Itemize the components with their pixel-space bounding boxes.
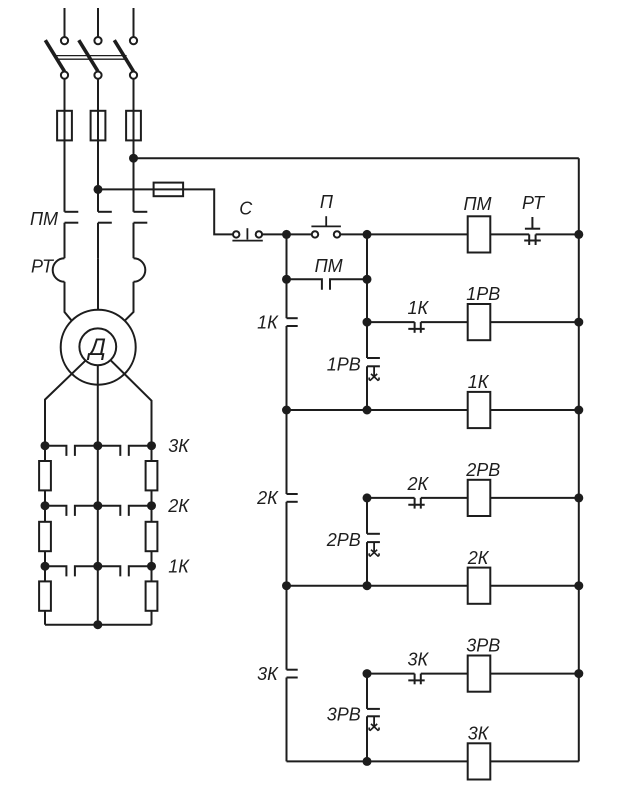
contact 3К left shorting	[45, 446, 66, 456]
thermal element RT L3	[134, 258, 146, 282]
contact 2К accelerating break	[287, 493, 298, 495]
node L2 control tap	[94, 185, 103, 194]
svg-text:3К: 3К	[468, 724, 490, 744]
wire A to P	[287, 233, 312, 235]
node resistor row 3К left	[41, 441, 50, 450]
wire right column segments	[151, 446, 153, 461]
svg-text:1К: 1К	[468, 372, 490, 392]
wire rung2 left	[367, 321, 415, 323]
knife switch terminal bottom L2	[94, 72, 101, 79]
svg-text:1К: 1К	[407, 298, 429, 318]
node middle branch rung2	[363, 318, 372, 327]
pushbutton P actuator	[325, 216, 327, 226]
knife switch linkage bar	[55, 55, 126, 57]
wire middle branch above 1РВ contact	[366, 322, 368, 358]
contact 1К right shorting	[98, 566, 121, 576]
node bus main rung	[574, 230, 583, 239]
node A	[282, 230, 291, 239]
wire left branch above 1К	[286, 279, 288, 318]
pushbutton C bridge	[232, 240, 262, 242]
knife switch blade L2	[79, 40, 98, 71]
node resistor row 2К right	[147, 501, 156, 510]
node resistor row 3К middle	[93, 441, 102, 450]
fuse control circuit	[154, 183, 184, 197]
wire rung7 left	[287, 760, 468, 762]
motor D inner circle	[79, 328, 116, 365]
node bus rung5	[574, 581, 583, 590]
contact 2РВ timed	[367, 533, 380, 535]
wire A down to self-hold	[286, 234, 288, 279]
svg-text:ПМ: ПМ	[30, 209, 58, 229]
wire middle branch below 2РВ contact	[366, 542, 368, 586]
pushbutton C terminal left	[233, 231, 239, 237]
svg-text:2К: 2К	[406, 474, 429, 494]
wire motor rotor lead middle	[97, 365, 99, 446]
wire P to node B	[340, 233, 367, 235]
wire middle column	[97, 446, 99, 625]
contact 2К closing break	[414, 498, 416, 509]
node left branch rung3	[282, 406, 291, 415]
svg-text:П: П	[320, 192, 334, 212]
knife switch terminal top L2	[94, 37, 101, 44]
contactor PM main contact L2	[98, 211, 112, 213]
wire through fuse F2	[97, 111, 99, 141]
node resistor row 3К right	[147, 441, 156, 450]
svg-text:1К: 1К	[168, 557, 190, 577]
contact RT release mark	[531, 217, 533, 229]
svg-text:1К: 1К	[257, 312, 279, 332]
coil 2РВ	[468, 480, 491, 516]
node bus rung3	[574, 406, 583, 415]
node self-hold right	[363, 275, 372, 284]
wire rung2 mid	[421, 321, 468, 323]
wire middle branch below 3РВ contact	[366, 716, 368, 761]
node B	[363, 230, 372, 239]
svg-text:3РВ: 3РВ	[466, 636, 500, 656]
pushbutton C terminal right	[256, 231, 262, 237]
node resistor row 1К left	[41, 562, 50, 571]
wire middle branch above 2РВ contact	[366, 498, 368, 534]
wire rung4 left	[367, 497, 415, 499]
svg-text:3К: 3К	[168, 436, 190, 456]
node bus rung4	[574, 493, 583, 502]
wire RT to bus	[536, 233, 579, 235]
wire L2 tap to control fuse	[98, 189, 233, 234]
wire middle branch below 1РВ contact	[366, 366, 368, 410]
contact 3К accelerating break	[287, 669, 298, 671]
resistor R6 right	[146, 581, 158, 610]
resistor R3 left	[39, 581, 51, 610]
wire L1 switch to fuse	[64, 79, 66, 111]
contactor PM main contact L3	[134, 211, 148, 213]
node middle branch rung5	[363, 581, 372, 590]
wire L1 heater to motor	[65, 282, 72, 321]
contact 1К accelerating break	[287, 317, 298, 319]
wire rung4 mid	[421, 497, 468, 499]
wire left branch below 1К	[286, 326, 288, 410]
resistor R5 right	[146, 522, 158, 551]
node middle branch rung6	[363, 669, 372, 678]
wire L3 fuse to PM contact	[133, 140, 135, 211]
node middle branch rung3	[363, 406, 372, 415]
wire rung6 left	[367, 673, 415, 675]
node resistor row 1К right	[147, 562, 156, 571]
contact 3К closing break	[414, 674, 416, 685]
fuse F3	[126, 111, 141, 141]
time-delay arrow 2РВ	[373, 542, 375, 552]
svg-text:2РВ: 2РВ	[326, 530, 361, 550]
wire L1 below PM contact	[64, 223, 66, 259]
coil PM	[468, 216, 491, 252]
wire rung6 mid	[421, 673, 468, 675]
wire rung2 right	[490, 321, 579, 323]
wire motor rotor lead right	[110, 360, 151, 446]
wire rung5	[287, 585, 468, 587]
knife switch terminal top L3	[130, 37, 137, 44]
contactor PM main contact L1	[65, 211, 79, 213]
wire through fuse F1	[64, 111, 66, 141]
wire PM coil to RT contact	[490, 233, 529, 235]
node left branch rung5	[282, 581, 291, 590]
contact RT thermal break	[528, 234, 530, 245]
wire rung7 right	[490, 760, 579, 762]
wire top feed to control bus	[134, 157, 579, 159]
contact 2К left shorting	[45, 506, 66, 516]
wire rung6 right	[490, 673, 579, 675]
wire left branch below 2К	[286, 502, 288, 586]
wire L2 below PM contact	[97, 223, 99, 259]
wire L3 heater to motor	[125, 282, 134, 321]
resistor R1 left	[39, 461, 51, 490]
fuse F1	[57, 111, 72, 141]
wire rung4 right	[490, 497, 579, 499]
svg-text:РТ: РТ	[522, 193, 546, 213]
svg-text:3К: 3К	[407, 650, 429, 670]
coil 3К	[468, 743, 491, 779]
contact PM holding	[287, 279, 322, 289]
contact 3К right shorting	[98, 446, 121, 456]
svg-text:1РВ: 1РВ	[327, 354, 361, 374]
knife switch blade L1	[45, 40, 64, 71]
wire L1 fuse to PM contact	[64, 140, 66, 211]
motor D outer circle	[61, 310, 136, 385]
knife switch terminal bottom L1	[61, 72, 68, 79]
svg-text:2К: 2К	[467, 548, 490, 568]
wire middle branch B to self-hold to rung2	[366, 279, 368, 322]
svg-text:Д: Д	[86, 334, 106, 361]
wire rung3 right	[490, 409, 579, 411]
node middle branch rung7	[363, 757, 372, 766]
node resistor row 2К left	[41, 501, 50, 510]
fuse F2	[91, 111, 106, 141]
node resistor bank bottom	[93, 620, 102, 629]
wire left branch above 2К	[286, 410, 288, 494]
node bus rung6	[574, 669, 583, 678]
wire resistor bank bottom	[45, 624, 152, 626]
contact 1К left shorting	[45, 566, 66, 576]
wire B to PM coil	[367, 233, 468, 235]
coil 2К	[468, 568, 491, 604]
wire middle branch above 3РВ contact	[366, 674, 368, 709]
knife switch blade L3	[114, 40, 133, 71]
contact 1К closing break	[414, 322, 416, 333]
node bus rung2	[574, 318, 583, 327]
svg-text:1РВ: 1РВ	[466, 284, 500, 304]
wire supply lead L1	[64, 8, 66, 37]
wire rung3	[287, 409, 468, 411]
node resistor row 2К middle	[93, 501, 102, 510]
svg-text:2К: 2К	[167, 496, 190, 516]
svg-text:3РВ: 3РВ	[327, 704, 361, 724]
knife switch terminal top L1	[61, 37, 68, 44]
contact 1РВ timed	[367, 357, 380, 359]
node middle branch rung4	[363, 493, 372, 502]
contact 3РВ timed	[367, 708, 380, 710]
time-delay arrow 3РВ	[373, 716, 375, 726]
resistor R4 right	[146, 461, 158, 490]
pushbutton P bridge	[311, 225, 341, 227]
coil 3РВ	[468, 656, 491, 692]
contact 2К right shorting	[98, 506, 121, 516]
coil 1К	[468, 392, 491, 428]
coil 1РВ	[468, 304, 491, 340]
svg-text:ПМ: ПМ	[463, 194, 491, 214]
wire L2 fuse to PM contact	[97, 140, 99, 211]
svg-text:2РВ: 2РВ	[465, 460, 500, 480]
wire left branch above 3К	[286, 586, 288, 670]
pushbutton P terminal left	[312, 231, 318, 237]
wire left column segments	[44, 446, 46, 461]
wire L2 straight (no heater)	[97, 258, 99, 310]
wire L3 below PM contact	[133, 223, 135, 259]
wire L3 switch to fuse	[133, 79, 135, 111]
svg-text:ПМ: ПМ	[315, 256, 343, 276]
svg-text:2К: 2К	[256, 488, 279, 508]
svg-text:РТ: РТ	[31, 256, 55, 276]
knife switch terminal bottom L3	[130, 72, 137, 79]
svg-text:С: С	[239, 199, 253, 219]
time-delay arrow 1РВ	[373, 366, 375, 376]
node self-hold left	[282, 275, 291, 284]
wire L2 switch to fuse	[97, 79, 99, 111]
wire motor rotor lead left	[45, 360, 86, 445]
node L3 control tap	[129, 154, 138, 163]
wire left branch below 3К	[286, 678, 288, 762]
wire through fuse F3	[133, 111, 135, 141]
wire rung5 right	[490, 585, 579, 587]
pushbutton C actuator	[246, 228, 248, 239]
wire supply lead L3	[133, 8, 135, 37]
pushbutton P terminal right	[334, 231, 340, 237]
resistor R2 left	[39, 522, 51, 551]
wire C to node A	[262, 233, 286, 235]
thermal element RT L1	[53, 258, 65, 282]
svg-text:3К: 3К	[257, 664, 279, 684]
node resistor row 1К middle	[93, 562, 102, 571]
wire right bus	[578, 158, 580, 761]
wire B down to self-hold	[366, 234, 368, 279]
wire supply lead L2	[97, 8, 99, 37]
